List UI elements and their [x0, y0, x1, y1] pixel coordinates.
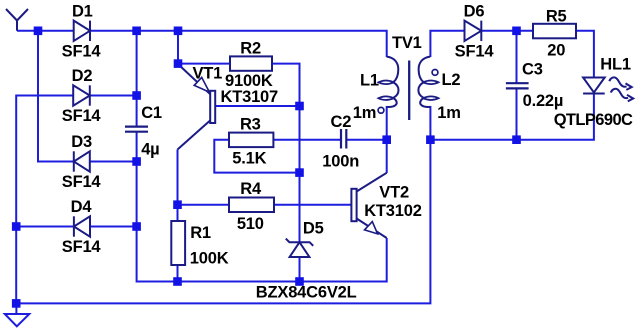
svg-text:1m: 1m — [353, 104, 376, 122]
svg-text:VT1: VT1 — [193, 64, 223, 82]
wire R1 bottom lead — [177, 265, 179, 282]
zener diode D5 — [286, 239, 313, 257]
wire D4 anode to C1 column — [90, 226, 137, 228]
inductor L1 (primary winding) — [378, 57, 398, 107]
svg-text:KT3102: KT3102 — [364, 202, 422, 220]
HL1 light arrows — [609, 77, 633, 101]
svg-text:R4: R4 — [240, 180, 262, 198]
diode D6 — [465, 21, 482, 41]
diode D1 — [74, 21, 90, 41]
svg-text:510: 510 — [237, 215, 264, 233]
svg-text:D3: D3 — [71, 133, 92, 151]
ground — [5, 314, 30, 326]
wire D5 bottom lead — [299, 257, 301, 282]
wire D6 cathode to R5 — [481, 30, 533, 32]
transformer TV1 core — [408, 61, 410, 121]
wire D1 cathode to L1 top — [90, 31, 387, 57]
wire D5 top lead — [299, 173, 301, 243]
svg-text:VT2: VT2 — [379, 183, 409, 201]
svg-text:D5: D5 — [303, 219, 324, 237]
transistor VT1 — [178, 65, 216, 150]
wire L1 bottom to VT2 collector — [386, 106, 388, 173]
svg-text:D1: D1 — [72, 2, 93, 20]
svg-text:C2: C2 — [331, 113, 352, 131]
node: ground junction — [12, 299, 21, 308]
svg-text:QTLP690C: QTLP690C — [554, 111, 633, 129]
svg-text:BZX84C6V2L: BZX84C6V2L — [256, 284, 357, 302]
svg-text:1m: 1m — [437, 104, 460, 122]
svg-text:R1: R1 — [190, 224, 211, 242]
svg-text:20: 20 — [547, 42, 565, 60]
wire D2 anode to left rail down — [16, 96, 73, 304]
node: C2 / L1 bottom — [382, 135, 391, 144]
svg-text:SF14: SF14 — [62, 43, 102, 61]
resistor R1 — [171, 221, 185, 265]
wire R4 right to VT2 base — [274, 204, 351, 206]
LED HL1 — [583, 78, 605, 94]
node: VT1 collector / R1 / R4 — [173, 200, 182, 209]
svg-text:SF14: SF14 — [62, 173, 102, 191]
L1 phase dot — [378, 107, 384, 113]
wire R2 right down to base node — [272, 64, 300, 106]
svg-text:D6: D6 — [464, 3, 485, 21]
wire top row from antenna to D1 — [17, 30, 74, 32]
svg-text:SF14: SF14 — [455, 43, 495, 61]
diode D4 — [74, 216, 90, 236]
wire node A down to D3 cathode — [38, 31, 74, 162]
wire VT1 collector column to R1 top node — [177, 150, 179, 205]
wire C3 column lower — [516, 89, 518, 140]
resistor R3 — [229, 133, 273, 148]
L2 phase dot — [432, 70, 438, 76]
transistor VT2 — [351, 173, 386, 238]
node: VT1 emitter / R2 — [174, 59, 183, 68]
node: top row / VT1 branch — [174, 27, 183, 36]
node: C3 bottom — [512, 135, 521, 144]
node: R1 bottom rail — [173, 277, 182, 286]
resistor R5 — [533, 24, 576, 39]
wire R3 left wrap-around — [214, 140, 299, 173]
node: D3 anode junction — [132, 157, 141, 166]
wire C1 column upper — [136, 31, 138, 127]
svg-text:C1: C1 — [141, 104, 162, 122]
svg-text:5.1K: 5.1K — [232, 149, 266, 167]
wire C1 column lower + bottom rail + VT2 emitter riser — [137, 132, 387, 282]
node: D6 cathode / C3 top — [512, 27, 521, 36]
node: L2 bottom — [426, 135, 435, 144]
node: D5 anode rail — [295, 277, 304, 286]
resistor R2 — [230, 56, 272, 70]
wire L2 bottom down to ground rail — [17, 106, 431, 303]
svg-text:SF14: SF14 — [62, 238, 102, 256]
inductor L2 (secondary winding) — [418, 57, 438, 107]
antenna — [6, 9, 28, 31]
svg-text:R2: R2 — [240, 40, 261, 58]
svg-text:D4: D4 — [71, 198, 93, 216]
wire R4 left — [178, 204, 230, 206]
node: D4 anode junction — [132, 222, 141, 231]
svg-text:L1: L1 — [360, 71, 379, 89]
svg-text:SF14: SF14 — [62, 107, 102, 125]
wire R3 right to C2 — [273, 139, 341, 141]
wire D2 cathode to C1 column — [90, 95, 137, 97]
node: VT1 base / R2 right — [295, 102, 304, 111]
wire base node down to node C — [299, 106, 301, 173]
wire node B down to VT1 emitter node — [177, 31, 179, 64]
capacitor C1 — [125, 127, 148, 132]
diode D3 — [74, 151, 90, 171]
ground stub — [15, 303, 17, 314]
svg-text:TV1: TV1 — [392, 34, 422, 52]
node: D2 cathode junction — [132, 91, 141, 100]
svg-text:0.22µ: 0.22µ — [523, 92, 564, 110]
wire R1 top lead — [177, 205, 179, 221]
svg-text:HL1: HL1 — [600, 56, 631, 74]
resistor R4 — [229, 198, 274, 213]
wire emitter node to R2 — [178, 63, 230, 65]
svg-text:R3: R3 — [240, 116, 261, 134]
node: D1 cathode / C1 top — [132, 27, 141, 36]
svg-text:100n: 100n — [322, 153, 359, 171]
svg-text:D2: D2 — [72, 67, 93, 85]
node: R3 wrap / D5 top — [295, 168, 304, 177]
wire R5 right down to LED top — [576, 31, 594, 78]
capacitor C3 — [506, 83, 529, 88]
svg-text:100K: 100K — [190, 250, 229, 268]
wire D3 anode to C1 column — [90, 161, 137, 163]
wire C2 right to primary node — [346, 139, 386, 141]
node: antenna junction — [34, 27, 43, 36]
svg-text:R5: R5 — [546, 7, 567, 25]
diode D2 — [73, 85, 90, 105]
wire LED bottom to secondary bottom row — [430, 94, 594, 140]
svg-text:KT3107: KT3107 — [221, 88, 279, 106]
wire VT1 base — [215, 105, 299, 107]
wire L2 top to D6 anode — [430, 31, 464, 57]
svg-text:C3: C3 — [522, 61, 543, 79]
wire D4 left — [16, 226, 74, 228]
node: D4 cathode / left rail — [12, 222, 21, 231]
capacitor C2 — [341, 129, 346, 149]
svg-text:4µ: 4µ — [141, 140, 159, 158]
svg-text:L2: L2 — [442, 71, 461, 89]
wire C3 column upper — [516, 31, 518, 83]
